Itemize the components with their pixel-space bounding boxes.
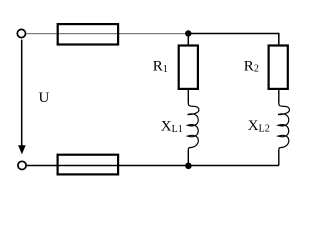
- node A (top junction dot): [185, 30, 191, 36]
- terminal (top input, circle): [17, 29, 25, 37]
- resistor R1 (box): [179, 46, 198, 89]
- svg-text:XL2: XL2: [248, 118, 270, 134]
- wire: node A down to R1: [187, 34, 189, 46]
- arrow U head: [18, 145, 26, 154]
- wire: R2 bottom lead: [278, 89, 280, 104]
- inductor XL1 (coil): [188, 103, 199, 150]
- svg-text:R2: R2: [244, 58, 259, 74]
- inductor XL2 (coil): [278, 103, 289, 150]
- resistor R2 (box): [269, 46, 288, 89]
- svg-text:U: U: [39, 90, 50, 106]
- terminal (bottom input, circle): [18, 161, 26, 169]
- wire: bottom conductor from terminal through fuse to node B and corner: [27, 165, 279, 167]
- svg-text:R1: R1: [153, 59, 168, 75]
- wire: node A to R2 top corner: [188, 34, 278, 46]
- fuse (top series box): [58, 24, 118, 44]
- wire: XL1 bottom lead to node B: [187, 150, 189, 166]
- node B (bottom junction dot): [185, 163, 192, 170]
- svg-text:XL1: XL1: [161, 119, 183, 135]
- wire: XL2 bottom lead to bottom conductor: [278, 150, 280, 166]
- fuse (bottom series box): [58, 155, 119, 175]
- arrow U (voltage arrow shaft): [21, 40, 23, 148]
- wire: top gray conductor from terminal to node A: [26, 33, 186, 35]
- wire: R1 bottom lead: [187, 89, 189, 104]
